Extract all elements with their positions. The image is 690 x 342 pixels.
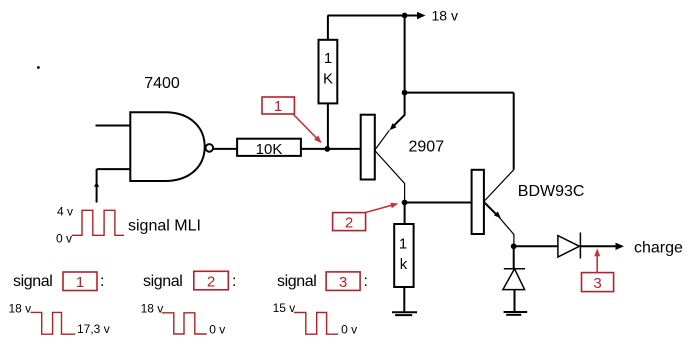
wire 1K top lead: [327, 16, 329, 40]
wire nand input A: [96, 125, 131, 127]
red arrow callout 2 to node 2: [366, 203, 399, 213]
wire 18v rail top: [328, 15, 405, 17]
svg-text:signal: signal: [13, 273, 52, 290]
diode D2 freewheel: [503, 269, 525, 290]
wire node to freewheel diode: [513, 246, 515, 268]
svg-text::: :: [364, 273, 368, 290]
wire nand input B: [97, 168, 131, 170]
ground right: [504, 312, 528, 315]
waveform signal 1: [31, 312, 76, 334]
svg-text:2: 2: [345, 215, 353, 232]
node emitter junction dot: [402, 90, 408, 96]
svg-text:1: 1: [399, 236, 407, 253]
svg-text:4 v: 4 v: [57, 205, 73, 219]
callout box 2 bottom: [194, 271, 229, 290]
ground left: [392, 312, 417, 315]
svg-text:1: 1: [274, 98, 282, 115]
resistor R1 1K: [319, 40, 338, 104]
svg-text:signal: signal: [143, 273, 182, 290]
svg-text:18 v: 18 v: [141, 301, 164, 315]
svg-text:2907: 2907: [409, 139, 445, 156]
svg-text:1: 1: [76, 274, 84, 291]
wire MLI input with up arrow: [94, 169, 99, 202]
callout box 1 bottom: [63, 272, 97, 291]
transistor Q1 collector: [375, 151, 405, 203]
callout box 2: [333, 213, 366, 232]
svg-text:0 v: 0 v: [56, 232, 72, 246]
svg-text:0 v: 0 v: [209, 323, 225, 337]
transistor Q2 collector diagonal: [484, 170, 514, 202]
wire 10K to node 1: [301, 148, 327, 150]
svg-text:10K: 10K: [256, 141, 283, 158]
wire 1K bottom lead to node 1: [327, 103, 329, 148]
svg-text:3: 3: [339, 274, 347, 291]
svg-text:18 v: 18 v: [9, 302, 32, 316]
wire node 2 to 1k resistor: [404, 203, 406, 225]
red arrow callout 3 to charge wire: [594, 248, 600, 272]
svg-text:k: k: [400, 256, 408, 273]
transistor Q1 2907 base bar: [361, 115, 375, 180]
svg-text:charge: charge: [634, 240, 683, 257]
wire node to output diode: [514, 245, 558, 247]
arrow to 18 v: [405, 12, 426, 19]
svg-text::: :: [232, 273, 236, 290]
callout box 3 bottom: [326, 272, 360, 291]
diode D1 output: [558, 233, 581, 259]
wire node 1 to 2907 base: [327, 148, 360, 150]
svg-text:2: 2: [207, 274, 215, 291]
svg-text:0 v: 0 v: [341, 323, 357, 337]
wire node 2 to BDW93C base: [405, 202, 472, 204]
transistor Q1 emitter with arrow: [375, 93, 405, 150]
wire diode to charge arrow: [581, 243, 625, 250]
callout box 1: [262, 97, 294, 115]
resistor R2 1k: [394, 224, 413, 287]
wire BDW93C collector vertical: [513, 93, 515, 170]
resistor 10K: [237, 139, 301, 158]
svg-text:15 v: 15 v: [273, 301, 296, 315]
wire 18v rail vertical: [404, 16, 406, 93]
transistor Q2 BDW93C base bar: [472, 170, 484, 234]
wire 1k resistor to ground: [403, 287, 405, 312]
callout box 3 right: [582, 273, 614, 292]
transistor Q2 emitter with arrow: [484, 202, 514, 246]
svg-text:7400: 7400: [144, 75, 180, 92]
svg-text:K: K: [323, 71, 333, 88]
svg-text:18 v: 18 v: [432, 8, 458, 24]
waveform signal 3: [294, 313, 338, 335]
waveform signal 2: [162, 313, 207, 334]
wire nand output: [213, 148, 238, 150]
svg-text:signal: signal: [277, 273, 316, 290]
svg-text::: :: [100, 273, 104, 290]
svg-text:1: 1: [324, 50, 332, 67]
svg-text:3: 3: [593, 275, 601, 292]
wire emitter node to BDW93C collector (top horizontal): [405, 92, 514, 94]
stray dot: [37, 66, 40, 69]
red arrow callout 1 to node 1: [294, 115, 322, 144]
svg-text:BDW93C: BDW93C: [518, 183, 585, 200]
svg-text:signal MLI: signal MLI: [128, 218, 201, 235]
svg-text:17,3 v: 17,3 v: [77, 322, 110, 336]
node 2 junction dot: [402, 200, 408, 206]
node 1 junction dot: [324, 146, 330, 152]
nand-gate U1: [130, 112, 213, 181]
node emitter output junction dot: [511, 243, 517, 249]
waveform signal MLI: [72, 210, 124, 235]
node top junction dot: [402, 13, 408, 19]
wire freewheel diode to ground: [514, 290, 516, 312]
